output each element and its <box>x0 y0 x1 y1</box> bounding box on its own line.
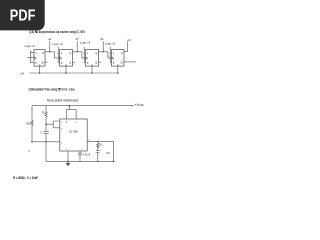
wire U3 Qbar stub <box>99 61 102 63</box>
capacitor C plates <box>43 131 48 133</box>
PDF badge <box>0 0 45 30</box>
svg-text:Logic +5: Logic +5 <box>52 42 63 46</box>
clock wedge U1 <box>34 57 36 60</box>
svg-text:q1: q1 <box>48 37 52 41</box>
clock wedge U2 <box>60 57 62 60</box>
resistor RL branch <box>97 141 99 161</box>
svg-text:PDF: PDF <box>10 7 36 24</box>
wire U3 CLR drop <box>91 66 93 73</box>
ground symbol <box>66 163 71 166</box>
svg-text:Logic +5: Logic +5 <box>80 40 91 44</box>
wire U1 CLR drop <box>39 66 41 73</box>
wire U2 Qbar stub <box>73 61 76 63</box>
resistor RL body <box>97 143 99 148</box>
svg-text:0.01uF: 0.01uF <box>83 153 91 156</box>
wire U4 CLR drop <box>117 66 119 73</box>
svg-text:Q.4) Bit Asynchronous Up count: Q.4) Bit Asynchronous Up counter using I… <box>30 30 85 34</box>
wire pin 1 ground drop <box>67 151 69 163</box>
svg-text:K: K <box>61 61 63 65</box>
clock wedge U3 <box>86 57 88 60</box>
wire C stem <box>45 124 47 161</box>
svg-text:K: K <box>35 61 37 65</box>
svg-text:Q: Q <box>69 51 71 55</box>
wire U1 Qbar stub <box>45 61 48 63</box>
wire clock bus <box>29 72 118 74</box>
svg-text:Q: Q <box>121 51 123 55</box>
net +Vcc label <box>131 105 133 107</box>
resistor R branch <box>45 106 47 125</box>
svg-text:tr: tr <box>29 150 31 153</box>
svg-text:Clk: Clk <box>20 72 25 76</box>
flip-flop U3 <box>86 50 99 67</box>
flip-flop pin letters <box>35 51 123 67</box>
node junction dots 555 <box>31 105 114 162</box>
wire VCC rail <box>32 105 134 107</box>
resistor R body <box>45 112 47 117</box>
clock wedge U4 <box>112 57 114 60</box>
wire VCC staple pins 8,4 <box>67 106 77 119</box>
svg-text:Logic +5: Logic +5 <box>105 42 116 46</box>
svg-text:C: C <box>39 63 41 67</box>
resistor 900 (trigger branch) <box>31 120 33 125</box>
wire U4 q4 up <box>124 41 128 51</box>
svg-text:Mono stable multivibrator: Mono stable multivibrator <box>47 98 79 102</box>
svg-text:Q: Q <box>121 61 123 65</box>
capacitor 0.01uF plates <box>78 153 82 155</box>
capacitor load plates <box>96 151 100 153</box>
svg-text:+Vcc: +Vcc <box>134 103 144 107</box>
wire output pin 3 <box>87 140 113 142</box>
flip-flop U1 (7476 JK) <box>34 50 45 67</box>
svg-text:R = 900Ω ; C = 10uF: R = 900Ω ; C = 10uF <box>13 176 38 180</box>
node junction dots counter <box>39 51 119 74</box>
wire U4 Qbar out <box>124 61 136 63</box>
svg-text:K: K <box>87 61 89 65</box>
wire U4 J/K tie <box>110 47 111 63</box>
wire U3 J/K tie <box>84 47 85 63</box>
wire U2 Q to U3 <box>73 41 86 58</box>
wire U2 CLR drop <box>65 66 67 73</box>
svg-text:K: K <box>113 61 115 65</box>
svg-text:Q: Q <box>69 61 71 65</box>
svg-text:V0: V0 <box>106 151 110 155</box>
wire ground bus <box>46 160 114 162</box>
svg-text:Q: Q <box>42 51 44 55</box>
svg-text:Q: Q <box>95 51 97 55</box>
wire U2 J/K tie <box>58 47 59 63</box>
svg-text:900: 900 <box>26 121 31 125</box>
wire U1 Q to U2 <box>45 41 60 58</box>
svg-text:C: C <box>91 63 93 67</box>
wire V0 branch <box>113 141 115 161</box>
svg-text:2) Monostable Timer using 555: 2) Monostable Timer using 555 ic for .1 … <box>29 87 76 91</box>
wire trigger row pin2 <box>32 141 60 143</box>
svg-text:IC 555: IC 555 <box>69 129 78 133</box>
svg-text:Q: Q <box>42 61 44 65</box>
svg-text:q3: q3 <box>100 37 104 41</box>
svg-text:q2: q2 <box>76 37 80 41</box>
svg-text:C: C <box>65 63 67 67</box>
op box IC 555 <box>60 119 87 151</box>
wire R/C junction to pins 7,6 <box>46 121 60 128</box>
flip-flop U4 <box>112 50 125 67</box>
svg-text:Logic +5: Logic +5 <box>24 44 35 48</box>
svg-text:Q: Q <box>95 61 97 65</box>
wire U3 Q to U4 <box>99 41 112 58</box>
wire left trigger branch <box>31 106 33 142</box>
wire pin 5 drop <box>79 151 81 161</box>
svg-text:q4: q4 <box>127 38 131 42</box>
svg-text:C: C <box>117 63 119 67</box>
flip-flop U2 <box>60 50 73 67</box>
wire U1 inputs <box>27 50 34 62</box>
